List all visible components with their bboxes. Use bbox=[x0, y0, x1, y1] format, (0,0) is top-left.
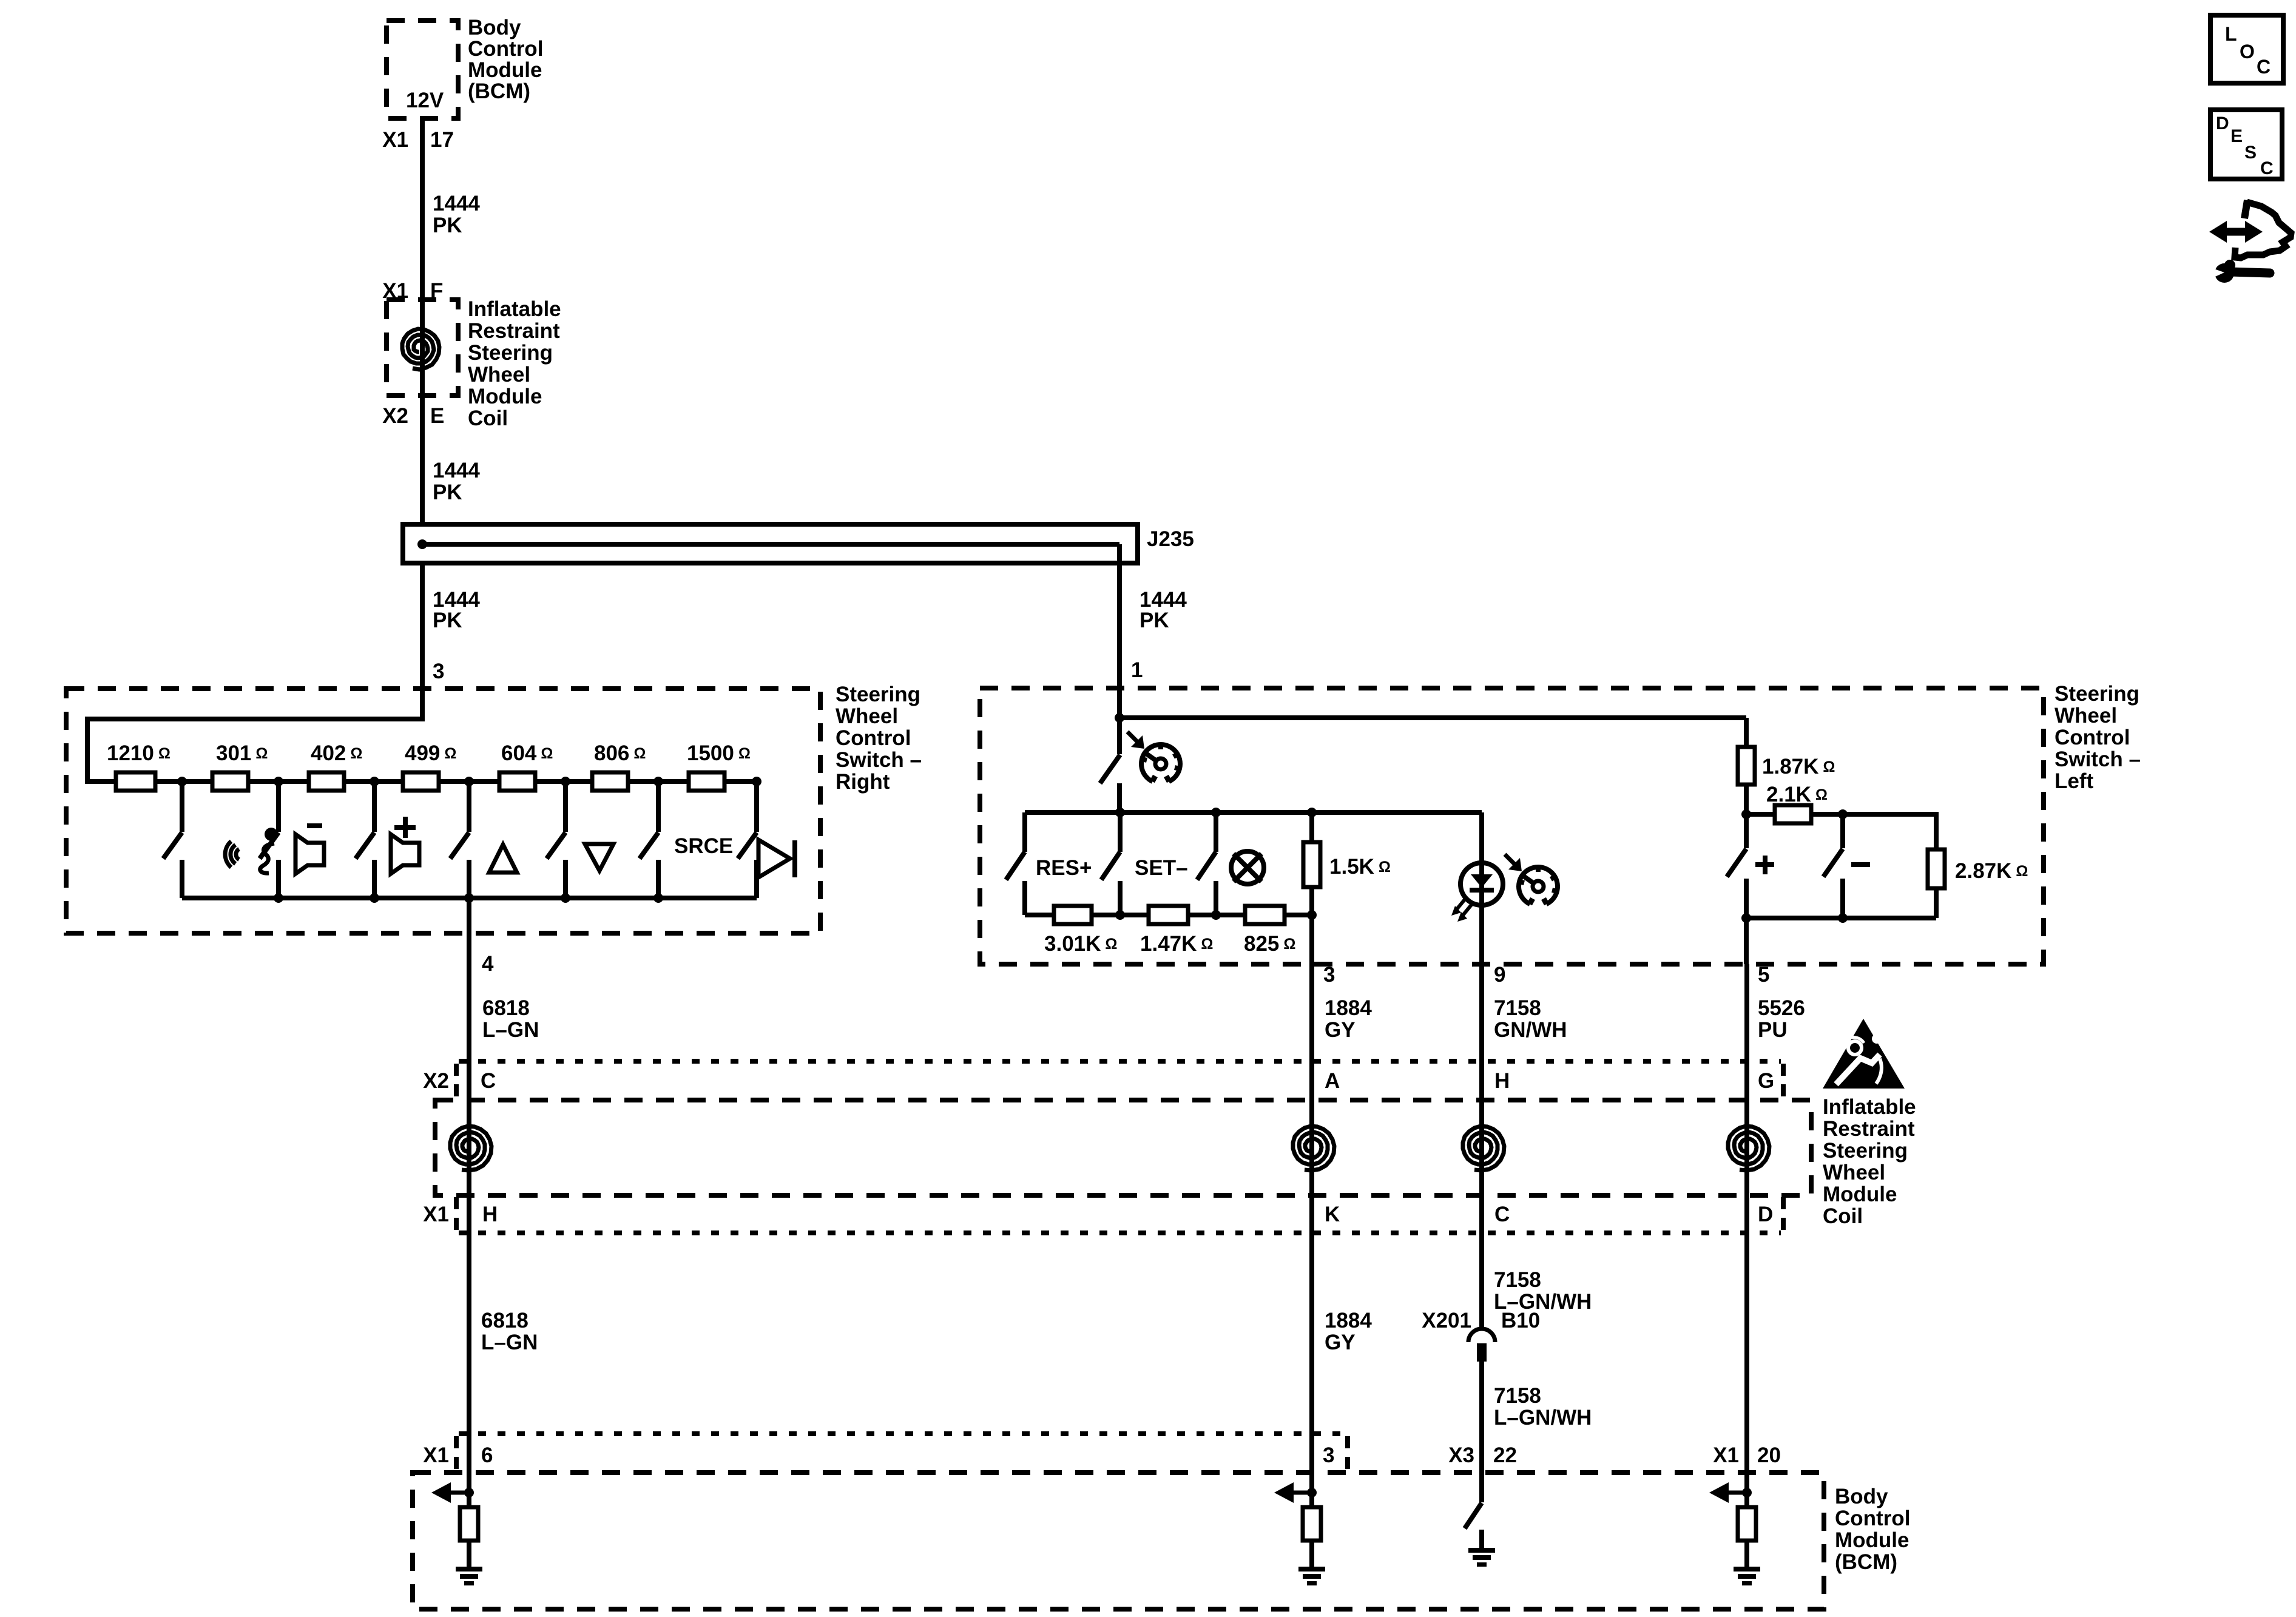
svg-text:PK: PK bbox=[433, 214, 462, 237]
wire 1444 PK to right switch pin 1 bbox=[1117, 563, 1122, 718]
svg-text:B10: B10 bbox=[1501, 1309, 1540, 1332]
junction dots on stalk rail bbox=[1741, 913, 1751, 923]
svg-text:7158: 7158 bbox=[1494, 1384, 1541, 1408]
switch volume + (left stalk) bbox=[1744, 814, 1749, 848]
svg-text:C: C bbox=[2257, 56, 2271, 78]
icon next track (play with bar) bbox=[758, 840, 790, 877]
wire 5526 PU through coil bbox=[1744, 964, 1749, 1473]
BCM input pin 3: pull resistor bbox=[1303, 1507, 1321, 1541]
svg-text:5: 5 bbox=[1758, 963, 1769, 987]
icon seek down (triangle) bbox=[585, 844, 613, 871]
module box: Inflatable Restraint Steering Wheel Module Coil (upper) bbox=[387, 300, 458, 396]
icon plus bbox=[1755, 862, 1774, 867]
module box: Body Control Module (BCM) bottom bbox=[413, 1473, 1824, 1609]
svg-text:GY: GY bbox=[1325, 1331, 1356, 1354]
svg-text:H: H bbox=[482, 1203, 498, 1226]
svg-text:1884: 1884 bbox=[1325, 1309, 1372, 1332]
svg-text:(BCM): (BCM) bbox=[468, 79, 530, 103]
svg-text:1.5K Ω: 1.5K Ω bbox=[1329, 855, 1391, 879]
icon DESC box bbox=[2210, 110, 2282, 179]
svg-text:L: L bbox=[2225, 23, 2237, 45]
LED emission arrows bbox=[1455, 898, 1466, 911]
svg-text:22: 22 bbox=[1493, 1443, 1517, 1467]
wire pin 3 (1884 GY) inside box bbox=[1309, 915, 1314, 964]
module box: Body Control Module (BCM) top bbox=[387, 21, 458, 118]
svg-text:GN/WH: GN/WH bbox=[1494, 1018, 1567, 1042]
switch cancel (lamp) bbox=[1214, 812, 1218, 852]
svg-text:Restraint: Restraint bbox=[1823, 1117, 1915, 1141]
svg-text:Control: Control bbox=[836, 726, 911, 750]
svg-text:1444: 1444 bbox=[433, 192, 480, 215]
svg-text:D: D bbox=[1758, 1203, 1773, 1226]
BCM pin 22: switch to ground bbox=[1465, 1503, 1482, 1528]
switch source bbox=[656, 781, 661, 832]
resistor ladder wire (left box) bbox=[87, 779, 116, 784]
BCM pin 22: ground stem bbox=[1479, 1530, 1484, 1548]
junction dots on bottom rail bbox=[274, 893, 283, 903]
svg-text:7158: 7158 bbox=[1494, 1268, 1541, 1292]
icon seek up (triangle) bbox=[489, 845, 517, 873]
BCM input pin 6: ground bbox=[456, 1567, 482, 1571]
svg-text:301 Ω: 301 Ω bbox=[216, 741, 268, 765]
svg-text:2.87K Ω: 2.87K Ω bbox=[1955, 859, 2028, 883]
icon volume up (speaker with plus) bbox=[394, 825, 416, 830]
wire 1444 PK to left switch pin 3 bbox=[87, 563, 422, 781]
svg-text:499 Ω: 499 Ω bbox=[405, 741, 456, 765]
wire 2.87K to rail bbox=[1934, 888, 1939, 918]
svg-text:Inflatable: Inflatable bbox=[1823, 1095, 1916, 1119]
coil L2 (wire 6818) bbox=[450, 1126, 491, 1170]
BCM pin 22: wire bbox=[1479, 1473, 1484, 1502]
connector row X1 dotted line bbox=[459, 1230, 1781, 1235]
svg-text:825 Ω: 825 Ω bbox=[1244, 932, 1295, 956]
switch seek up bbox=[467, 781, 471, 832]
svg-text:402 Ω: 402 Ω bbox=[311, 741, 362, 765]
icon lamp (circle with X) bbox=[1231, 851, 1264, 884]
BCM input pin 3: signal arrow bbox=[1294, 1491, 1312, 1495]
svg-text:Restraint: Restraint bbox=[468, 319, 560, 343]
switch seek down bbox=[563, 781, 568, 832]
switch next track bbox=[754, 781, 759, 832]
svg-text:Coil: Coil bbox=[468, 407, 508, 430]
svg-text:X201: X201 bbox=[1422, 1309, 1471, 1332]
BCM input pin 3: ground bbox=[1298, 1567, 1325, 1571]
svg-text:E: E bbox=[2230, 126, 2243, 146]
switch cruise on-off bbox=[1117, 718, 1122, 754]
svg-text:9: 9 bbox=[1494, 963, 1505, 987]
junction dot right of 2.1K bbox=[1838, 809, 1848, 819]
svg-text:E: E bbox=[430, 404, 444, 428]
svg-text:J235: J235 bbox=[1147, 527, 1194, 551]
svg-text:S: S bbox=[2244, 143, 2257, 163]
LED indicator (cruise telltale) bbox=[1460, 863, 1503, 905]
junction dot pin1 node bbox=[1115, 713, 1124, 723]
svg-text:1210 Ω: 1210 Ω bbox=[107, 741, 171, 765]
svg-text:PU: PU bbox=[1758, 1018, 1788, 1042]
coil L4 (wire 7158) bbox=[1463, 1126, 1504, 1170]
svg-text:X1: X1 bbox=[1713, 1443, 1739, 1467]
switch SET- bbox=[1118, 812, 1123, 852]
coil L3 (wire 1884) bbox=[1293, 1126, 1334, 1170]
BCM input pin 6: wire bbox=[467, 1473, 471, 1507]
svg-text:3.01K Ω: 3.01K Ω bbox=[1044, 932, 1117, 956]
wire 1444 PK from BCM X1-17 to coil bbox=[420, 118, 425, 524]
icon voice recognition bbox=[236, 849, 239, 859]
svg-text:1500 Ω: 1500 Ω bbox=[687, 741, 751, 765]
svg-text:PK: PK bbox=[1140, 609, 1169, 632]
resistor 1500 ohm bbox=[689, 772, 724, 791]
svg-text:Control: Control bbox=[2055, 726, 2130, 749]
svg-text:X1: X1 bbox=[382, 128, 408, 152]
wire 1884 GY through coil bbox=[1309, 964, 1314, 1473]
wire 6818 L-GN through coil bbox=[467, 933, 471, 1473]
top rail (cruise switches) bbox=[1025, 810, 1482, 815]
coil L1 (clockspring upper) bbox=[402, 329, 439, 370]
coil L5 (wire 5526) bbox=[1728, 1126, 1769, 1170]
icon LOC box bbox=[2210, 15, 2283, 83]
connector separator right (X1 row) bbox=[1781, 1197, 1786, 1232]
svg-text:X1: X1 bbox=[423, 1443, 449, 1467]
svg-text:L–GN/WH: L–GN/WH bbox=[1494, 1406, 1592, 1430]
svg-text:O: O bbox=[2240, 41, 2255, 62]
svg-text:C: C bbox=[481, 1069, 496, 1093]
junction dots on ladder bbox=[177, 777, 187, 786]
BCM input pin 20: pull resistor bbox=[1738, 1507, 1756, 1541]
switch volume down bbox=[276, 781, 281, 832]
svg-text:Wheel: Wheel bbox=[2055, 704, 2117, 727]
svg-text:17: 17 bbox=[430, 128, 454, 152]
svg-text:2.1K Ω: 2.1K Ω bbox=[1766, 783, 1828, 806]
svg-text:6818: 6818 bbox=[481, 1309, 528, 1332]
svg-text:SET–: SET– bbox=[1135, 856, 1188, 880]
svg-text:1444: 1444 bbox=[433, 459, 480, 482]
BCM input pin 3: junction dot bbox=[1307, 1488, 1317, 1497]
wire 7158 below splice bbox=[1479, 1362, 1484, 1473]
icon minus bbox=[1851, 862, 1870, 867]
BCM input pin 6: wire to ground bbox=[467, 1541, 471, 1567]
svg-text:4: 4 bbox=[482, 952, 494, 976]
svg-text:L–GN: L–GN bbox=[482, 1018, 539, 1042]
connector separator (BCM X1 right) bbox=[1345, 1436, 1350, 1471]
svg-text:Steering: Steering bbox=[1823, 1139, 1908, 1163]
svg-text:Right: Right bbox=[836, 770, 890, 794]
svg-text:Wheel: Wheel bbox=[836, 704, 898, 728]
resistor 1.5K ohm bbox=[1309, 812, 1314, 842]
connector separator right (X2 row) bbox=[1781, 1064, 1786, 1099]
svg-text:X2: X2 bbox=[423, 1069, 449, 1093]
warning triangle airbag icon bbox=[1823, 1019, 1905, 1089]
BCM input pin 20: junction dot bbox=[1742, 1488, 1752, 1497]
svg-text:Wheel: Wheel bbox=[1823, 1161, 1885, 1184]
svg-text:1884: 1884 bbox=[1325, 996, 1372, 1020]
connector separator (BCM X1 left) bbox=[454, 1436, 459, 1471]
svg-text:C: C bbox=[2260, 158, 2274, 178]
wire LED branch bbox=[1479, 812, 1484, 964]
connector row X2 dotted line bbox=[459, 1059, 1781, 1064]
svg-text:Inflatable: Inflatable bbox=[468, 297, 561, 321]
wire to 2.87K bbox=[1843, 814, 1936, 849]
svg-text:6818: 6818 bbox=[482, 996, 530, 1020]
resistor 806 ohm bbox=[592, 772, 628, 791]
resistor 604 ohm bbox=[499, 772, 535, 791]
junction dot at J235 bbox=[417, 539, 427, 549]
wire pin 5 inside box bbox=[1744, 918, 1749, 964]
BCM input pin 6: junction dot bbox=[464, 1488, 474, 1497]
switch voice recognition bbox=[180, 781, 184, 832]
svg-text:Steering: Steering bbox=[468, 341, 553, 365]
icon volume down (speaker with minus) bbox=[307, 823, 322, 828]
bottom rail of left switch box bbox=[182, 896, 757, 900]
svg-text:Steering: Steering bbox=[836, 683, 920, 706]
svg-text:X2: X2 bbox=[382, 404, 408, 428]
junction dots on bottom rail (cruise) bbox=[1115, 910, 1125, 920]
resistor 1.87K ohm bbox=[1744, 718, 1749, 747]
BCM input pin 20: signal arrow bbox=[1729, 1491, 1747, 1495]
connector row X1 (BCM) dotted line bbox=[459, 1431, 1348, 1436]
svg-text:7158: 7158 bbox=[1494, 996, 1541, 1020]
svg-text:1.47K Ω: 1.47K Ω bbox=[1140, 932, 1213, 956]
wire pin 4 to ladder bbox=[467, 898, 471, 933]
resistor 1210 ohm bbox=[116, 772, 155, 791]
BCM input pin 3: wire to ground bbox=[1309, 1541, 1314, 1567]
connector separator left (X2 row) bbox=[454, 1064, 459, 1099]
svg-text:L–GN: L–GN bbox=[481, 1331, 538, 1354]
svg-text:Control: Control bbox=[1835, 1507, 1910, 1530]
bottom rail (cruise resistors) bbox=[1025, 913, 1054, 917]
svg-text:Module: Module bbox=[468, 58, 542, 82]
BCM pin 22: ground bbox=[1468, 1548, 1495, 1553]
svg-text:(BCM): (BCM) bbox=[1835, 1550, 1897, 1574]
BCM input pin 20: ground bbox=[1734, 1567, 1760, 1571]
BCM input pin 6: pull resistor bbox=[460, 1507, 478, 1541]
BCM input pin 3: wire bbox=[1309, 1473, 1314, 1507]
svg-text:Module: Module bbox=[468, 385, 542, 408]
resistor 499 ohm bbox=[403, 772, 439, 791]
svg-text:1.87K Ω: 1.87K Ω bbox=[1762, 755, 1835, 778]
svg-text:H: H bbox=[1494, 1069, 1510, 1093]
svg-text:A: A bbox=[1325, 1069, 1340, 1093]
resistor 825 ohm bbox=[1245, 906, 1285, 924]
bottom rail (left stalk) bbox=[1746, 916, 1936, 920]
svg-text:Body: Body bbox=[468, 16, 521, 39]
svg-text:Wheel: Wheel bbox=[468, 363, 530, 387]
resistor 3.01K ohm bbox=[1054, 906, 1092, 924]
arrow into gauge 1 bbox=[1131, 735, 1144, 749]
resistor 2.1K ohm bbox=[1746, 812, 1775, 817]
module box: Steering Wheel Control Switch - Right bbox=[66, 689, 820, 933]
svg-text:G: G bbox=[1758, 1069, 1774, 1093]
svg-text:D: D bbox=[2216, 113, 2229, 133]
svg-text:5526: 5526 bbox=[1758, 996, 1805, 1020]
icon cruise gauge 1 bbox=[1141, 744, 1180, 781]
resistor 402 ohm bbox=[309, 772, 344, 791]
svg-text:1: 1 bbox=[1131, 658, 1143, 682]
splice block J235 bbox=[403, 524, 1138, 563]
module box: Inflatable Restraint Steering Wheel Module Coil (lower) bbox=[435, 1100, 1811, 1195]
svg-text:3: 3 bbox=[433, 660, 444, 683]
BCM input pin 20: wire to ground bbox=[1744, 1541, 1749, 1567]
resistor 301 ohm bbox=[212, 772, 248, 791]
svg-text:Switch –: Switch – bbox=[2055, 748, 2141, 771]
svg-text:PK: PK bbox=[433, 481, 462, 504]
svg-text:3: 3 bbox=[1323, 1443, 1334, 1467]
connector separator left (X1 row) bbox=[454, 1197, 459, 1232]
svg-text:20: 20 bbox=[1757, 1443, 1781, 1467]
svg-text:PK: PK bbox=[433, 609, 462, 632]
svg-text:3: 3 bbox=[1323, 963, 1335, 987]
svg-text:806 Ω: 806 Ω bbox=[594, 741, 646, 765]
svg-text:Coil: Coil bbox=[1823, 1204, 1863, 1228]
icon cruise gauge 2 bbox=[1519, 867, 1558, 904]
svg-text:C: C bbox=[1494, 1203, 1510, 1226]
svg-text:X3: X3 bbox=[1448, 1443, 1474, 1467]
svg-text:X1: X1 bbox=[423, 1203, 449, 1226]
switch volume - (left stalk) bbox=[1840, 814, 1845, 848]
junction dot left of 2.1K bbox=[1741, 809, 1751, 819]
svg-text:604 Ω: 604 Ω bbox=[501, 741, 553, 765]
BCM input pin 20: wire bbox=[1744, 1473, 1749, 1507]
svg-text:Switch –: Switch – bbox=[836, 748, 922, 772]
svg-text:RES+: RES+ bbox=[1036, 856, 1092, 880]
svg-text:Steering: Steering bbox=[2055, 682, 2139, 706]
svg-text:Module: Module bbox=[1823, 1183, 1897, 1206]
module box: Steering Wheel Control Switch - Left bbox=[980, 688, 2044, 964]
icon hand with arrow and wrench bbox=[2226, 228, 2246, 236]
svg-text:Module: Module bbox=[1835, 1528, 1909, 1552]
svg-text:12V: 12V bbox=[406, 89, 444, 112]
switch volume up bbox=[372, 781, 377, 832]
svg-text:6: 6 bbox=[481, 1443, 493, 1467]
resistor 1.47K ohm bbox=[1149, 906, 1188, 924]
svg-text:K: K bbox=[1325, 1203, 1340, 1226]
wire from pin1 node to right branch bbox=[1119, 715, 1746, 720]
resistor 2.87K ohm bbox=[1928, 849, 1945, 888]
arrow into gauge 2 bbox=[1508, 858, 1522, 871]
svg-text:Body: Body bbox=[1835, 1485, 1888, 1508]
switch RES+ bbox=[1022, 812, 1027, 852]
svg-text:SRCE: SRCE bbox=[674, 834, 733, 858]
in-line connector X201-B10 symbol bbox=[1468, 1329, 1495, 1342]
bus wire inside J235 bbox=[422, 542, 1119, 547]
BCM input pin 6: signal arrow bbox=[451, 1491, 469, 1495]
wire 7158 through coil bbox=[1479, 964, 1484, 1328]
svg-text:Left: Left bbox=[2055, 769, 2094, 793]
svg-text:GY: GY bbox=[1325, 1018, 1356, 1042]
junction dots on top rail bbox=[1115, 808, 1125, 817]
svg-text:Control: Control bbox=[468, 37, 543, 61]
